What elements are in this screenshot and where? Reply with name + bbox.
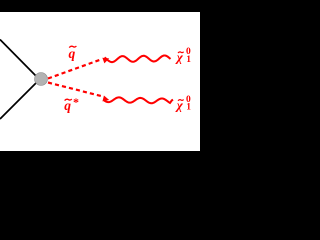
label q~* (lower squark, antisquark) [64,95,79,113]
neutralino wavy line (upper) [105,55,171,62]
svg-text:1: 1 [186,55,191,65]
interaction blob [35,73,48,86]
svg-text:q: q [69,46,76,61]
incoming parton line (upper left) [0,40,37,78]
incoming parton line (lower left) [0,82,37,119]
label neutralino chi_1^0 (lower) [175,95,191,113]
arrowhead on upper squark line [102,58,109,64]
svg-text:*: * [73,95,79,109]
squark propagator q~ (upper dashed) [48,60,100,79]
white background band of diagram [0,12,200,151]
label q~ (upper squark) [69,46,77,61]
squark propagator q~* (lower dashed) [48,83,101,97]
arrowhead on lower squark line [102,96,109,102]
svg-text:1: 1 [186,102,191,112]
label neutralino chi_1^0 (upper) [175,47,191,65]
neutralino wavy line (lower) [104,97,173,103]
